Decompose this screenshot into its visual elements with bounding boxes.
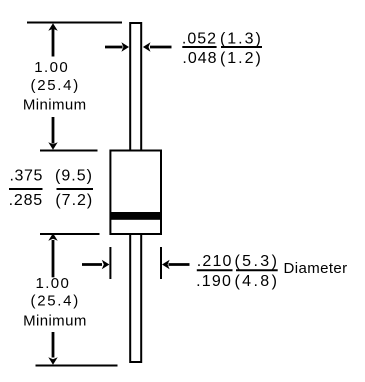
svg-text:Diameter: Diameter: [284, 260, 348, 277]
svg-text:(25.4): (25.4): [31, 293, 80, 310]
svg-text:.285: .285: [9, 192, 43, 209]
svg-text:(25.4): (25.4): [31, 77, 80, 94]
svg-text:(1.3): (1.3): [220, 30, 263, 47]
svg-text:Minimum: Minimum: [23, 313, 87, 330]
svg-text:(7.2): (7.2): [55, 192, 93, 209]
svg-text:(4.8): (4.8): [234, 273, 279, 290]
svg-text:.190: .190: [196, 273, 232, 290]
svg-text:.210: .210: [197, 253, 233, 270]
svg-text:.052: .052: [182, 30, 217, 47]
svg-text:Minimum: Minimum: [23, 97, 87, 114]
svg-text:1.00: 1.00: [36, 275, 71, 292]
svg-text:1.00: 1.00: [34, 59, 69, 76]
svg-text:.048: .048: [182, 50, 217, 67]
svg-text:(5.3): (5.3): [234, 253, 279, 270]
svg-text:(1.2): (1.2): [220, 50, 263, 67]
svg-text:.375: .375: [10, 167, 44, 184]
svg-text:(9.5): (9.5): [55, 167, 93, 184]
